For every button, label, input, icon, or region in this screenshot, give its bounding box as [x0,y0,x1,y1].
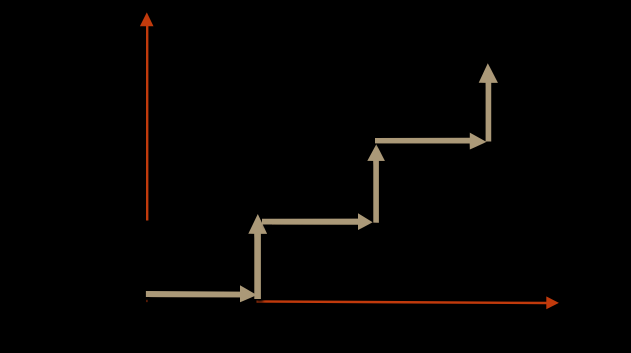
x-axis (red, horizontal) [146,296,559,309]
wire: x-axis shaft [146,301,548,303]
shadow falloff dimming start of x-axis [145,297,148,305]
step arrow V3 (tan, vertical) [479,63,498,141]
step arrow V2 (tan, vertical) [367,144,385,222]
shadow occluder over x-axis under first step arrow [148,296,257,306]
x-axis arrowhead [546,296,559,309]
step arrow H3 (tan, horizontal) [375,133,486,150]
step arrow H2 (tan, horizontal) [262,213,373,230]
y-axis arrowhead [140,12,154,26]
y-axis (red, vertical) [140,12,154,220]
wire: y-axis shaft [146,25,148,221]
step arrow V1 (tan, vertical) [248,214,267,299]
step arrow H1 (tan, horizontal) [146,285,257,302]
